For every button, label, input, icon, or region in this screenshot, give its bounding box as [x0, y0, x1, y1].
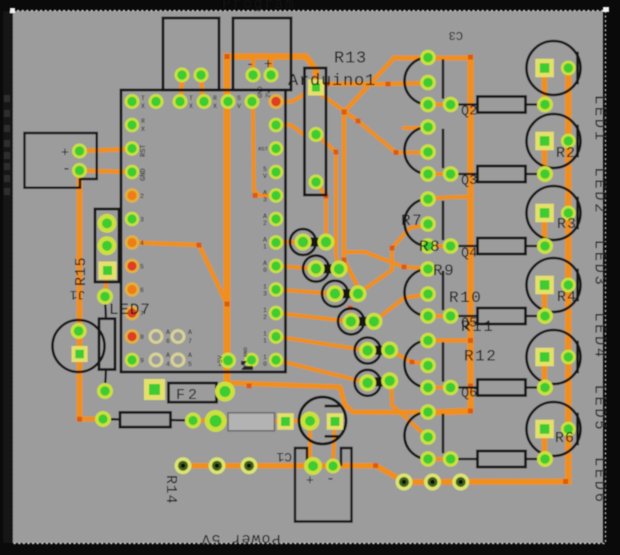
svg-text:-: - [246, 57, 254, 73]
svg-text:R3: R3 [557, 216, 577, 233]
svg-text:Q2: Q2 [461, 105, 477, 120]
svg-text:2V: 2V [265, 90, 272, 98]
svg-text:+: + [306, 473, 314, 488]
svg-text:+: + [61, 145, 69, 160]
svg-text:Q3: Q3 [461, 174, 477, 189]
svg-text:R13: R13 [334, 50, 367, 69]
svg-text:Q4: Q4 [461, 247, 477, 262]
svg-text:+: + [264, 57, 272, 73]
svg-text:-: - [62, 161, 71, 178]
svg-text:5: 5 [188, 361, 192, 368]
svg-text:GND: GND [140, 168, 148, 181]
svg-text:1: 1 [263, 331, 267, 338]
svg-text:R14: R14 [162, 475, 179, 504]
svg-text:Q6: Q6 [461, 387, 477, 402]
svg-text:R10: R10 [449, 289, 482, 307]
svg-text:1: 1 [263, 354, 267, 361]
svg-text:5: 5 [140, 264, 144, 271]
svg-text:A: A [263, 237, 267, 244]
svg-text:J1: J1 [70, 287, 86, 302]
svg-text:GND: GND [257, 86, 264, 98]
svg-text:A: A [263, 260, 267, 267]
svg-text:RST: RST [140, 144, 148, 157]
svg-text:A: A [263, 190, 267, 197]
svg-text:LED6: LED6 [591, 457, 609, 505]
svg-text:R4: R4 [557, 289, 577, 306]
svg-text:R9: R9 [433, 262, 455, 280]
svg-text:S: S [237, 95, 241, 102]
svg-text:X: X [141, 103, 145, 110]
svg-text:V: V [263, 173, 267, 180]
svg-text:R2: R2 [556, 145, 576, 162]
svg-text:R6: R6 [555, 430, 575, 447]
svg-text:2: 2 [263, 220, 267, 227]
svg-text:LED7: LED7 [109, 301, 151, 319]
svg-text:R11: R11 [461, 318, 494, 336]
svg-text:T: T [141, 95, 145, 102]
svg-text:F2: F2 [176, 387, 200, 404]
svg-text:1: 1 [263, 338, 267, 345]
svg-text:X: X [213, 103, 217, 110]
svg-text:RST: RST [258, 146, 269, 153]
svg-text:2: 2 [140, 193, 144, 200]
svg-text:8: 8 [140, 334, 144, 341]
svg-text:LED3: LED3 [591, 240, 609, 288]
svg-text:LED5: LED5 [591, 385, 609, 433]
svg-text:R8: R8 [419, 238, 441, 256]
svg-text:R: R [141, 118, 145, 125]
svg-text:9: 9 [140, 358, 144, 365]
svg-text:1: 1 [263, 244, 267, 251]
svg-text:A: A [166, 329, 170, 336]
svg-text:C3: C3 [449, 28, 463, 42]
svg-text:0: 0 [263, 361, 267, 368]
svg-text:Power 5V: Power 5V [200, 530, 280, 547]
svg-text:X: X [141, 126, 145, 133]
svg-text:-: - [326, 471, 335, 488]
svg-text:Arduino1: Arduino1 [288, 72, 376, 91]
svg-text:GND: GND [242, 346, 249, 357]
svg-text:Program: Program [222, 0, 296, 13]
svg-text:X: X [189, 103, 193, 110]
svg-text:4: 4 [140, 240, 144, 247]
svg-text:T: T [189, 95, 193, 102]
svg-text:7: 7 [188, 338, 192, 345]
svg-text:R12: R12 [464, 348, 497, 366]
svg-text:A: A [188, 329, 192, 336]
svg-text:0: 0 [263, 267, 267, 274]
svg-text:5: 5 [263, 166, 267, 173]
svg-text:4: 4 [166, 361, 170, 368]
svg-text:A: A [263, 213, 267, 220]
svg-text:LED1: LED1 [591, 95, 609, 143]
svg-text:R: R [213, 95, 217, 102]
svg-text:6: 6 [140, 287, 144, 294]
svg-text:LED4: LED4 [591, 312, 609, 360]
svg-text:2: 2 [263, 314, 267, 321]
svg-text:R15: R15 [73, 257, 90, 286]
svg-text:7: 7 [140, 311, 144, 318]
svg-text:3: 3 [263, 291, 267, 298]
svg-text:6: 6 [166, 338, 170, 345]
svg-text:A: A [188, 352, 192, 359]
svg-text:V: V [237, 103, 241, 110]
svg-text:A: A [166, 352, 170, 359]
svg-text:LED2: LED2 [591, 167, 609, 215]
svg-text:+5V: +5V [217, 355, 224, 367]
svg-text:R7: R7 [401, 212, 423, 230]
svg-text:1: 1 [263, 307, 267, 314]
svg-text:1: 1 [263, 284, 267, 291]
svg-text:C1: C1 [276, 449, 292, 464]
svg-text:3: 3 [263, 197, 267, 204]
svg-text:3: 3 [140, 217, 144, 224]
